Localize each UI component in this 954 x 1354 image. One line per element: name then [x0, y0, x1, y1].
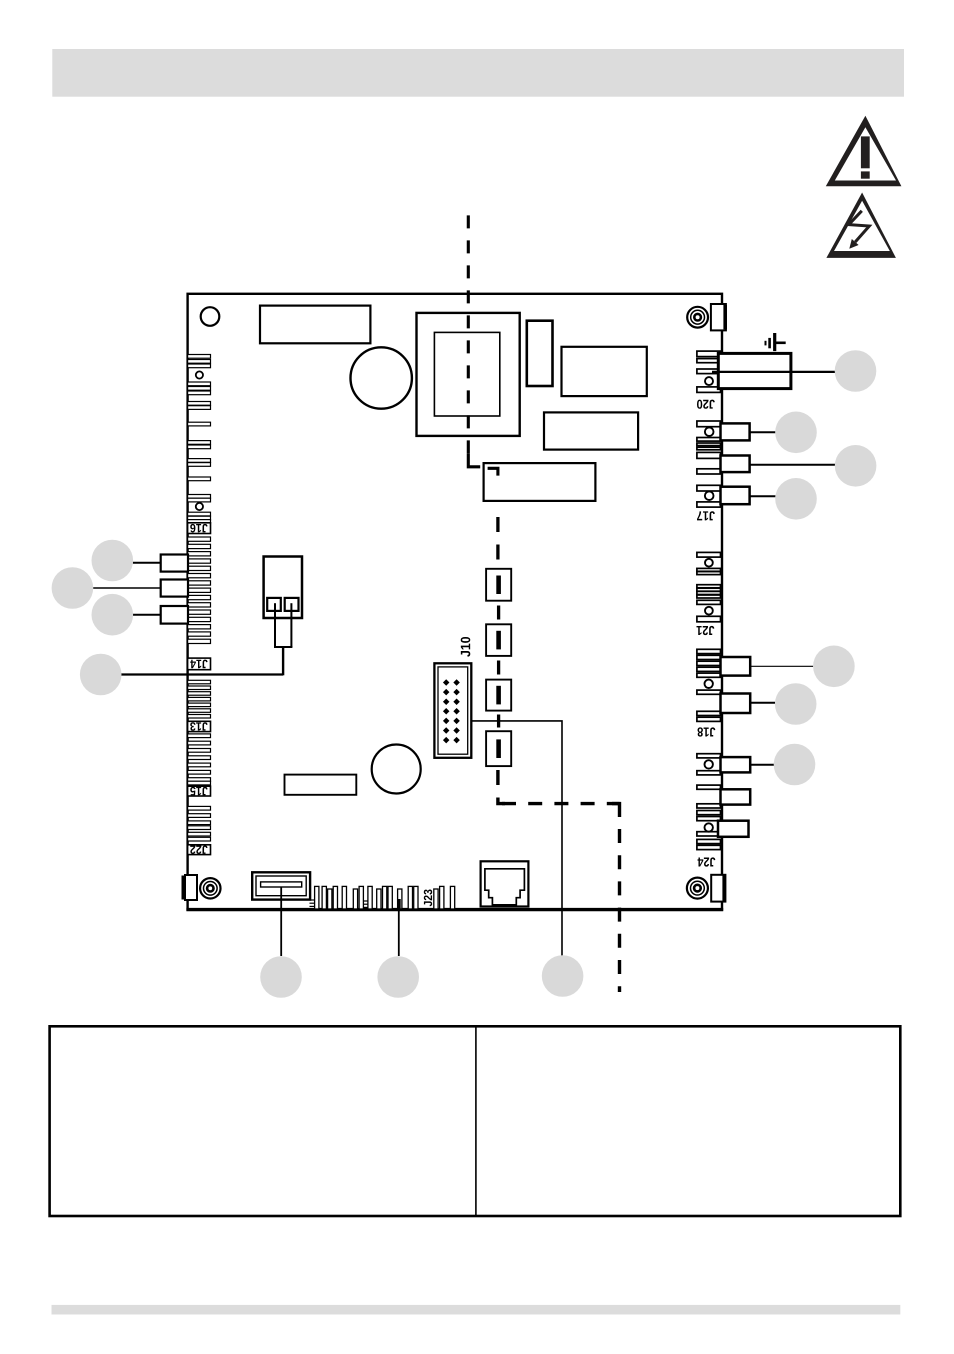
- connector pin strip left section B: [188, 537, 211, 644]
- tab top-right: [711, 304, 726, 330]
- faston J24-3: [718, 821, 749, 837]
- wire to callout 3: [133, 614, 161, 616]
- faston J17-2: [721, 456, 750, 473]
- callout circle 7: [835, 445, 877, 487]
- wire from J10 to callout: [471, 721, 562, 956]
- wire to callout 8: [750, 495, 776, 497]
- component rectangle top-left: [260, 306, 370, 344]
- callout circle 10: [775, 683, 817, 725]
- callout circle 11: [774, 744, 816, 786]
- connector pin strip left section D: [188, 734, 211, 785]
- pin hole: [705, 559, 713, 567]
- callout circle 1: [92, 540, 134, 582]
- wire to callout 7: [750, 464, 836, 466]
- legend table: [50, 1026, 901, 1216]
- dashed gap segments: [497, 606, 500, 728]
- label J10: [461, 637, 471, 657]
- label J15: [188, 786, 211, 796]
- connector pin strip left section C: [188, 680, 211, 718]
- dashed horizontal run: [502, 802, 620, 805]
- PCB board outline: [188, 294, 722, 910]
- dashed section line lower: [496, 517, 499, 564]
- label J18: [698, 727, 716, 736]
- pin hole: [705, 607, 713, 615]
- component rectangle bottom-left: [285, 775, 357, 795]
- test point TP4: [486, 731, 511, 766]
- dashed corner down: [612, 804, 620, 817]
- callout circle 13: [377, 956, 419, 998]
- component long rectangle (relay K1): [484, 463, 596, 501]
- footer bar: [52, 1305, 901, 1315]
- label J16: [188, 523, 211, 534]
- connector J18 pins: [697, 649, 721, 721]
- screw bottom-left: [200, 878, 220, 898]
- connector body J16-3: [161, 606, 188, 624]
- wire comb to callout: [398, 901, 400, 956]
- callout circle 8: [775, 478, 817, 520]
- label J24: [697, 857, 715, 866]
- board bottom edge emphasis: [186, 908, 723, 911]
- label J17: [697, 511, 715, 520]
- label J13: [188, 721, 211, 731]
- relay component with two contacts: [264, 557, 302, 676]
- label J14: [188, 658, 211, 670]
- pin hole: [705, 377, 713, 385]
- wire to callout 9: [750, 665, 813, 667]
- callout circle 5: [835, 350, 877, 392]
- label J21: [696, 626, 714, 635]
- transformer T1 outer: [417, 313, 520, 436]
- component rectangle below: [544, 412, 638, 449]
- callout circle 4: [80, 654, 122, 696]
- callout circle 6: [775, 412, 817, 454]
- capacitor circle: [351, 347, 412, 408]
- pin hole: [196, 503, 203, 510]
- warning triangle (exclamation): [826, 116, 902, 187]
- pin hole: [705, 680, 713, 688]
- component rectangle right: [562, 347, 647, 396]
- component vertical rectangle: [527, 321, 553, 386]
- connector J17 pins: [697, 421, 721, 507]
- screw top-right: [687, 307, 708, 328]
- connector body J16-2: [161, 580, 188, 597]
- ground symbol: [766, 333, 786, 351]
- pin hole: [196, 371, 203, 378]
- connector J24 pins: [697, 754, 721, 850]
- pin hole: [705, 491, 714, 500]
- circle component bottom-middle: [372, 745, 421, 794]
- wire to callout 10: [750, 702, 775, 704]
- callout circle 2: [52, 567, 94, 609]
- dashed vertical run bottom: [618, 829, 621, 992]
- faston block J20: [718, 353, 791, 388]
- pin hole: [705, 760, 713, 768]
- tab bottom-right: [711, 875, 725, 902]
- RJ45 jack: [481, 861, 529, 906]
- faston J17-3: [721, 487, 750, 505]
- DIP switch block: [252, 872, 310, 899]
- connector J21 pins: [697, 552, 721, 621]
- wire to callout 1: [133, 562, 161, 564]
- faston J24-1: [721, 757, 751, 772]
- screw bottom-right: [687, 878, 708, 899]
- label J22: [188, 845, 211, 855]
- mounting hole top-left: [201, 307, 220, 326]
- callout circle 3: [92, 594, 134, 636]
- wire to callout 6: [750, 431, 776, 433]
- connector comb J23: [310, 886, 455, 909]
- test point TP2: [486, 624, 511, 656]
- faston J18-1: [721, 657, 751, 676]
- wire to callout 2: [93, 587, 161, 589]
- pin hole: [705, 427, 714, 436]
- test point TP3: [486, 680, 511, 711]
- transformer T1 inner: [434, 332, 499, 416]
- dashed elbow: [468, 454, 480, 467]
- tab bottom-left: [183, 875, 197, 900]
- connector pin strip left section A: [188, 355, 211, 524]
- pin hole: [705, 823, 713, 831]
- connector pin strip left section E: [188, 806, 211, 841]
- faston J18-2: [721, 694, 751, 714]
- wire J20 to callout 5: [712, 371, 835, 373]
- callout circle 14: [542, 955, 584, 997]
- wire to callout 4: [121, 673, 283, 675]
- label J23: [424, 889, 432, 906]
- wire DIP to callout: [280, 887, 282, 956]
- warning triangle (lightning flash): [826, 193, 896, 258]
- callout circle 9: [813, 646, 855, 688]
- dashed elbow bottom: [498, 770, 505, 804]
- label J20: [697, 400, 715, 409]
- connector J20 pins: [697, 351, 721, 392]
- header bar: [52, 49, 904, 97]
- wire to callout 11: [750, 764, 774, 766]
- dashed section line upper: [467, 215, 470, 461]
- connector body J16-1: [161, 555, 188, 572]
- callout circle 12: [260, 956, 302, 998]
- test point TP1: [486, 569, 511, 601]
- faston J24-2: [721, 789, 751, 804]
- faston J17-1: [721, 423, 750, 440]
- dashed elbow inner: [488, 468, 498, 475]
- connector J10: [434, 663, 471, 758]
